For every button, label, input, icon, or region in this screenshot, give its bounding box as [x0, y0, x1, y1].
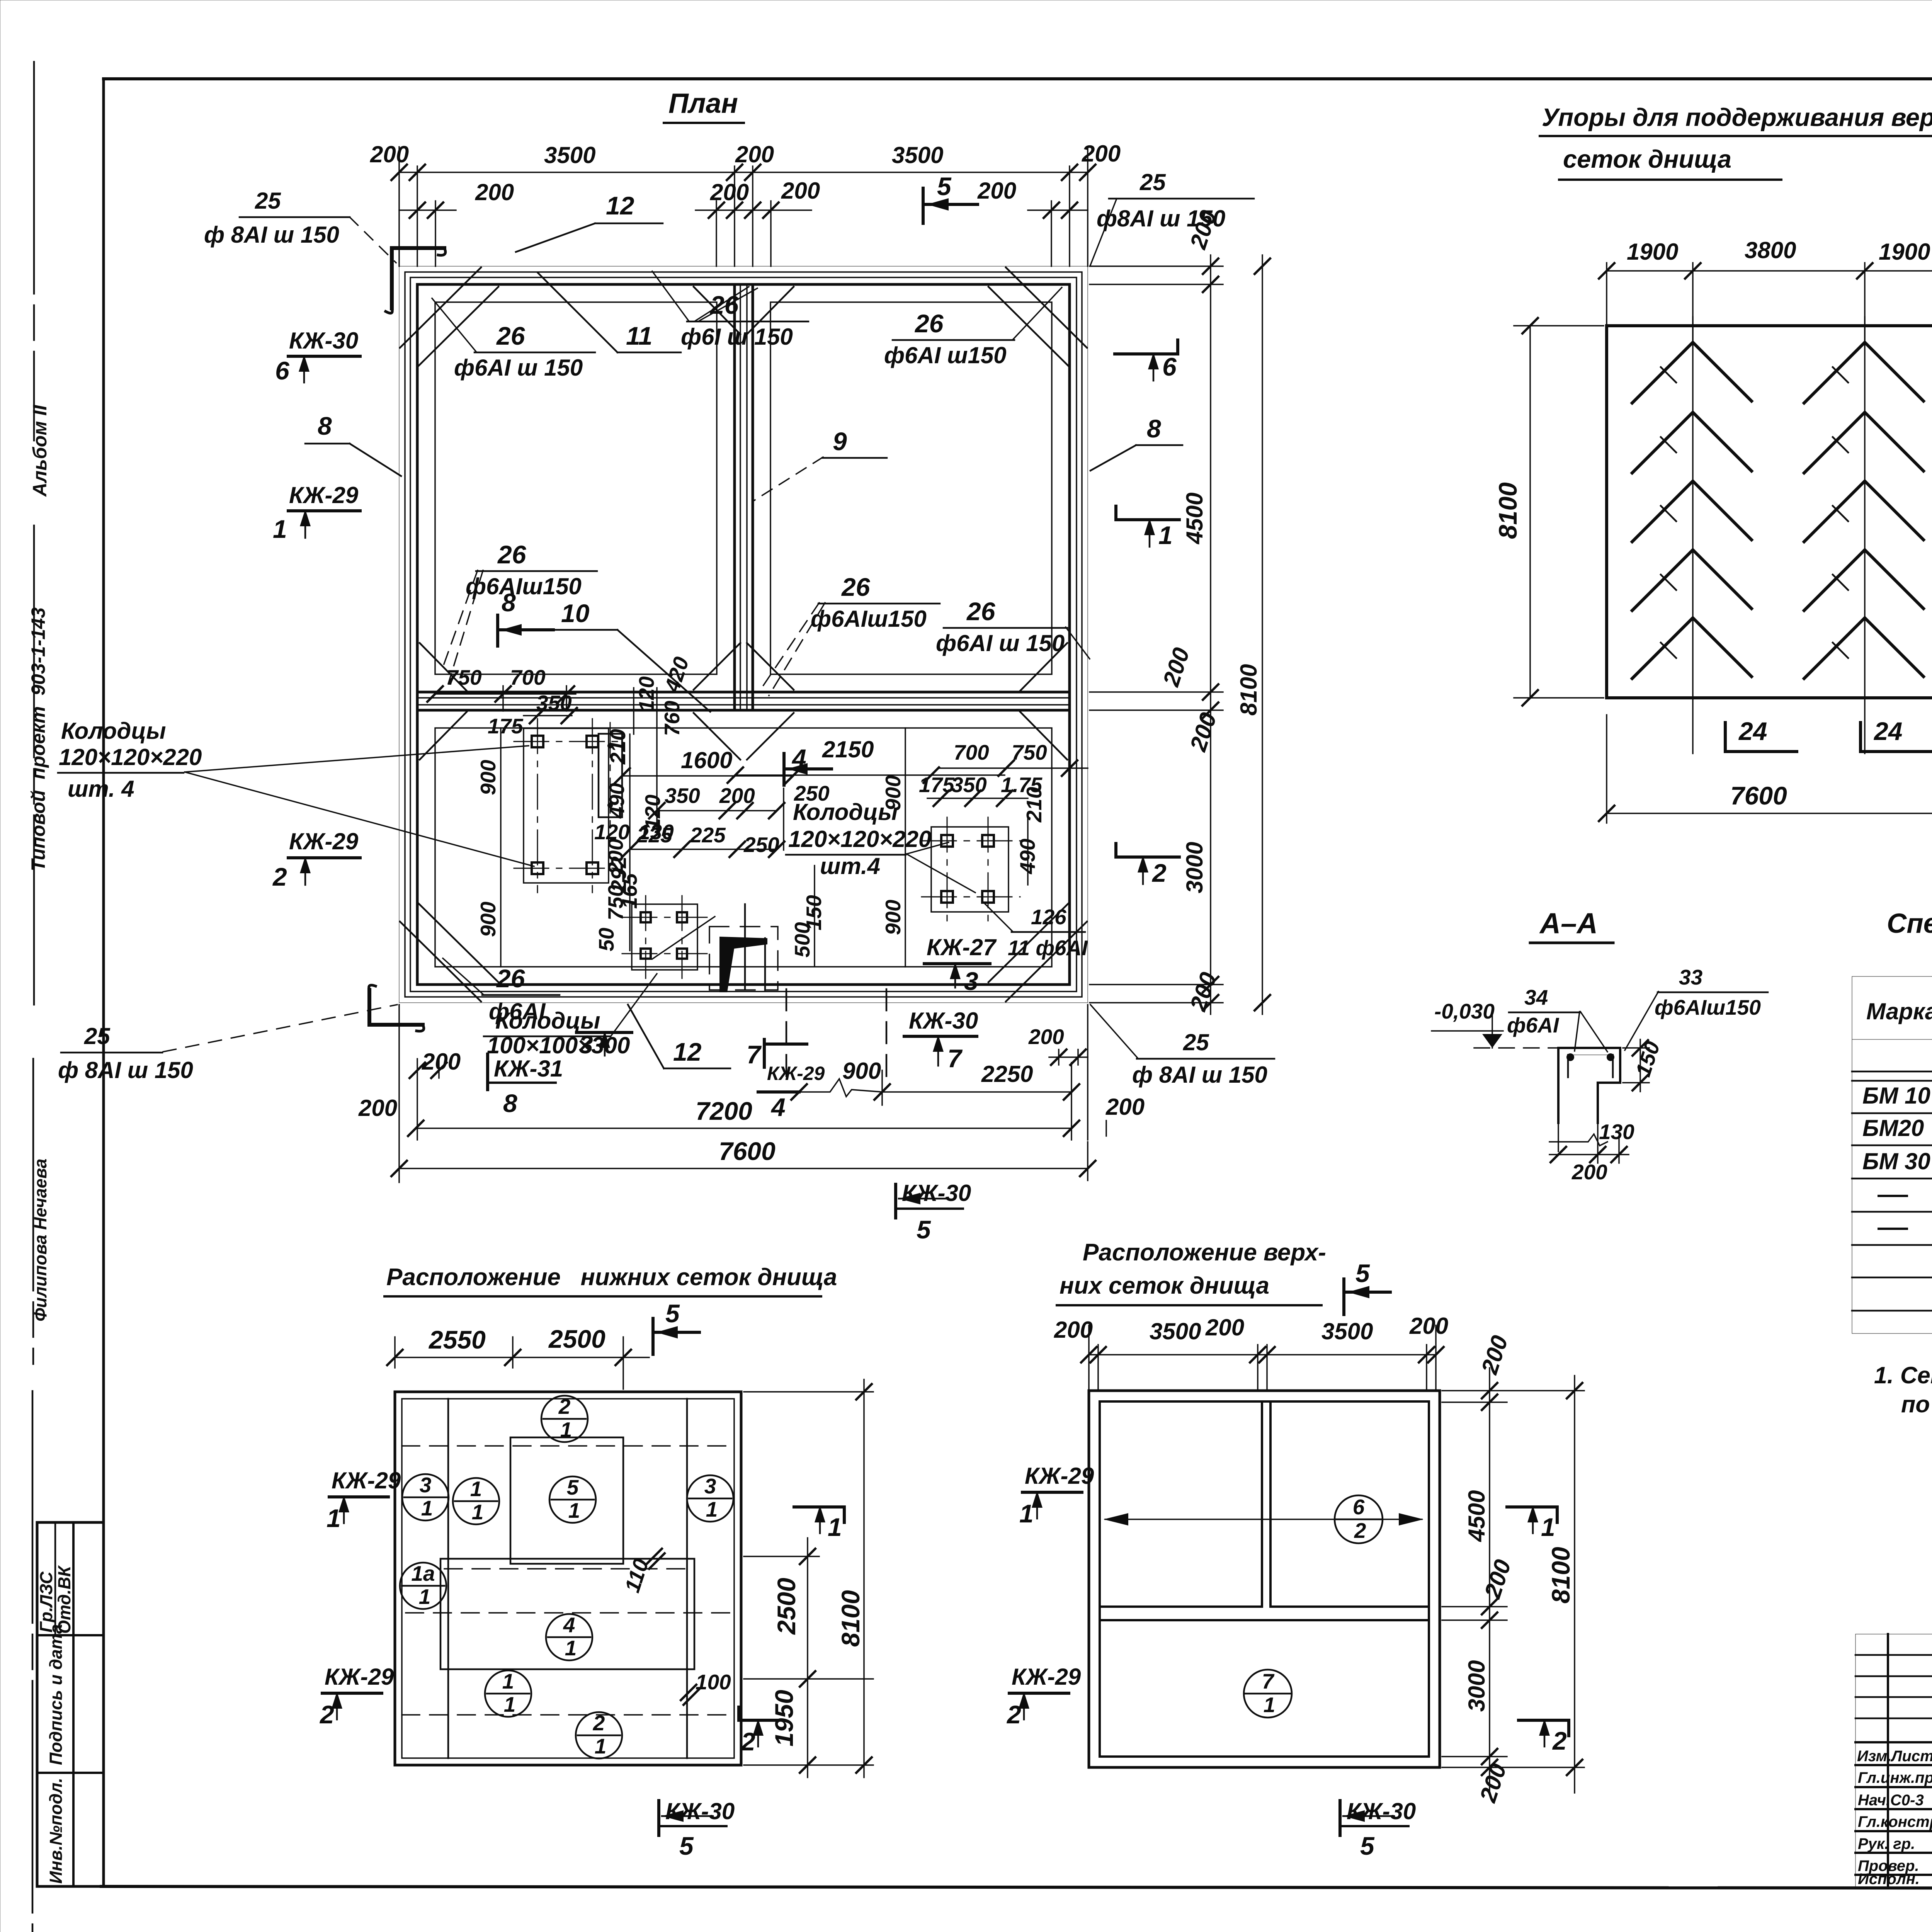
svg-text:200: 200	[358, 1095, 397, 1121]
svg-text:26: 26	[841, 573, 871, 601]
bm right dims	[1442, 1332, 1584, 1806]
svg-text:2: 2	[319, 1700, 334, 1729]
bm square	[1089, 1391, 1440, 1767]
svg-text:5: 5	[665, 1299, 680, 1328]
svg-text:10: 10	[561, 599, 590, 628]
label 26 f6AI	[443, 958, 560, 1024]
svg-text:Инв.№подл.: Инв.№подл.	[46, 1778, 66, 1884]
svg-text:ф6АI ш 150: ф6АI ш 150	[454, 355, 583, 381]
svg-text:225: 225	[690, 823, 726, 847]
svg-text:ф 8АI ш 150: ф 8АI ш 150	[1132, 1062, 1267, 1088]
svg-text:Типовой проект 903-1-143: Типовой проект 903-1-143	[27, 607, 49, 871]
dim 900 bottom	[791, 1058, 890, 1100]
svg-text:2150: 2150	[822, 736, 874, 762]
svg-text:КЖ-27: КЖ-27	[927, 934, 997, 960]
dim 2150 row	[728, 736, 1005, 783]
svg-text:900: 900	[881, 775, 905, 811]
svg-text:4500: 4500	[1464, 1490, 1490, 1542]
top dimension row1	[370, 141, 1121, 266]
A-A profile	[1558, 1048, 1620, 1123]
svg-text:Гр.ЛЗС: Гр.ЛЗС	[36, 1571, 56, 1633]
marker KZh-27 3	[924, 934, 997, 995]
svg-text:120: 120	[634, 676, 658, 712]
svg-text:5: 5	[1360, 1832, 1375, 1860]
svg-text:1: 1	[1158, 521, 1173, 549]
mesh inset rect top-left cell	[435, 302, 717, 674]
plan middle horizontal wall	[417, 692, 1070, 710]
right dim line 8100	[1236, 255, 1270, 1014]
sheet edge line left	[32, 62, 34, 1932]
svg-text:200: 200	[1479, 1556, 1516, 1602]
svg-text:КЖ-30: КЖ-30	[665, 1798, 735, 1824]
svg-text:ф6АIш150: ф6АIш150	[466, 573, 582, 599]
svg-text:210: 210	[606, 729, 630, 765]
svg-text:1: 1	[595, 1734, 607, 1758]
svg-text:8100: 8100	[1236, 664, 1262, 716]
marker KZh-29 1 left	[273, 482, 360, 543]
svg-text:4: 4	[791, 744, 806, 772]
section 7-7 dashed cut lines	[786, 989, 886, 1082]
svg-text:25: 25	[1139, 169, 1166, 195]
svg-text:210: 210	[1022, 787, 1046, 823]
label 26 f6AIsh150 botleft-cell	[441, 540, 597, 684]
bl sheet4 band	[406, 1559, 730, 1669]
svg-text:1: 1	[502, 1669, 514, 1693]
svg-text:7600: 7600	[719, 1137, 776, 1165]
svg-text:КЖ-30: КЖ-30	[289, 328, 358, 354]
svg-text:11 ф6АI: 11 ф6АI	[1008, 936, 1088, 960]
dim 7600	[391, 1137, 1095, 1180]
left margin rotated text Album	[29, 405, 51, 497]
svg-text:26: 26	[496, 964, 526, 993]
svg-text:120×120×220: 120×120×220	[59, 744, 202, 770]
bl marker 5 top	[653, 1299, 699, 1354]
svg-text:3: 3	[964, 967, 978, 995]
svg-text:1: 1	[472, 1500, 484, 1524]
svg-text:Лист: Лист	[1890, 1748, 1932, 1765]
svg-text:2500: 2500	[548, 1325, 605, 1353]
dim 700 750 right	[919, 740, 1088, 806]
mesh inset rect top-right cell	[770, 302, 1052, 674]
svg-text:200: 200	[1158, 645, 1194, 690]
svg-text:200: 200	[977, 178, 1016, 204]
bm circle 6-2	[1335, 1495, 1383, 1543]
svg-text:200: 200	[1185, 709, 1221, 755]
label 9	[754, 427, 887, 500]
bl marker KZh-30 5 bottom	[659, 1798, 735, 1860]
dim 1600	[614, 747, 801, 784]
label Kolodtsy center	[786, 799, 975, 893]
label 25 f8AIsh150 top-left	[204, 188, 396, 263]
svg-text:6: 6	[1353, 1495, 1365, 1519]
label 12 top	[516, 191, 663, 252]
svg-text:Отд.ВК: Отд.ВК	[54, 1565, 74, 1634]
svg-text:БМ 30: БМ 30	[1862, 1148, 1930, 1174]
bl marker KZh-29 1 left	[327, 1468, 401, 1532]
vertical slot detail	[599, 723, 622, 829]
svg-text:6: 6	[1162, 352, 1177, 381]
chevron left dim 8100	[1493, 318, 1604, 706]
left margin rotated text project no	[27, 607, 49, 871]
plan inner wall face	[417, 284, 1070, 985]
A-A title	[1530, 907, 1613, 943]
label 26 f6Ish150 center	[652, 271, 808, 350]
corner braces bottom-right	[988, 902, 1087, 1002]
braces center wall bottom junction	[694, 643, 794, 760]
svg-text:130: 130	[1599, 1120, 1634, 1144]
svg-text:200: 200	[1571, 1160, 1607, 1184]
label 25 f8AIsh150 top-right	[1090, 169, 1254, 265]
svg-text:900: 900	[476, 901, 500, 937]
svg-text:490: 490	[605, 783, 629, 819]
svg-text:2500: 2500	[772, 1578, 801, 1635]
bl title	[384, 1264, 837, 1296]
spec note	[1874, 1362, 1932, 1417]
svg-text:200: 200	[1054, 1317, 1093, 1343]
svg-text:1900: 1900	[1627, 239, 1678, 265]
svg-text:126: 126	[1031, 905, 1066, 929]
top dimension row2	[399, 178, 1088, 266]
svg-text:26: 26	[496, 321, 526, 350]
bl circle 2-1 low	[576, 1711, 622, 1759]
svg-text:900: 900	[881, 900, 905, 935]
svg-text:33: 33	[1679, 965, 1702, 989]
svg-text:1: 1	[327, 1504, 341, 1532]
corner braces top-left	[400, 267, 498, 367]
dim 200 small bottom-right	[1028, 1025, 1088, 1065]
svg-text:900: 900	[476, 760, 500, 795]
svg-text:7200: 7200	[696, 1097, 752, 1125]
bl circle 3-1 right	[687, 1474, 733, 1522]
svg-text:50: 50	[594, 927, 618, 951]
svg-text:Изм.: Изм.	[1857, 1748, 1891, 1765]
svg-text:КЖ-29: КЖ-29	[1025, 1463, 1094, 1489]
label 25 f8AIsh150 bottom-left	[58, 1005, 397, 1083]
left sidebar table	[37, 1522, 104, 1886]
svg-text:Расположение нижних сеток дн: Расположение нижних сеток днища	[386, 1264, 837, 1291]
svg-text:350: 350	[665, 784, 700, 808]
spec header texts	[1866, 990, 1932, 1035]
svg-text:-0,030: -0,030	[1434, 999, 1495, 1023]
svg-text:1: 1	[706, 1497, 718, 1521]
chevron square	[1607, 326, 1932, 698]
svg-text:5: 5	[679, 1832, 694, 1860]
svg-text:Упоры для поддерживания верхни: Упоры для поддерживания верхних	[1542, 103, 1932, 131]
svg-text:3800: 3800	[1745, 237, 1796, 263]
svg-text:200: 200	[422, 1049, 461, 1075]
bottom right 200 dim	[1088, 1005, 1145, 1140]
svg-text:Подпись и дата: Подпись и дата	[46, 1624, 66, 1765]
svg-text:200: 200	[1205, 1315, 1244, 1340]
svg-text:25: 25	[84, 1023, 111, 1049]
label 26 f6AIsh150 topleft-cell	[432, 298, 595, 381]
svg-text:420: 420	[660, 654, 694, 696]
svg-text:КЖ-29: КЖ-29	[325, 1664, 394, 1690]
right dim line inner	[1090, 207, 1223, 1014]
markers 7 KZh-29 4 bottom	[747, 1039, 825, 1121]
svg-text:120×120×220: 120×120×220	[788, 826, 931, 852]
mesh inset rect bottom room	[435, 728, 1052, 967]
bm marker KZh-29 1 left	[1019, 1463, 1094, 1528]
svg-text:Филипова Нечаева: Филипова Нечаева	[31, 1158, 50, 1321]
svg-text:24: 24	[1873, 717, 1902, 745]
bl marker 2 right	[739, 1707, 779, 1756]
bm marker KZh-30 5 bottom	[1340, 1798, 1416, 1860]
svg-text:ф6АI ш 150: ф6АI ш 150	[936, 630, 1065, 656]
svg-text:26: 26	[709, 291, 739, 319]
chevrons left column	[1632, 342, 1752, 679]
spec row BM30	[1862, 1148, 1932, 1174]
svg-text:Рук. гр.: Рук. гр.	[1858, 1835, 1915, 1852]
bm marker KZh-29 2 left	[1006, 1664, 1081, 1729]
svg-text:КЖ-29: КЖ-29	[289, 482, 359, 508]
A-A dims	[1549, 1038, 1665, 1184]
svg-text:2250: 2250	[981, 1061, 1033, 1087]
svg-text:1900: 1900	[1879, 239, 1930, 265]
chevrons right column	[1804, 342, 1923, 679]
A-A elevation mark	[1432, 999, 1557, 1048]
marker 4 mid	[784, 744, 832, 785]
bm top cells	[1100, 1401, 1429, 1757]
svg-text:Расположение верх-: Расположение верх-	[1083, 1239, 1326, 1266]
bottom opening with black wedge	[709, 904, 778, 992]
personnel rows	[1858, 1767, 1932, 1888]
svg-text:2550: 2550	[428, 1325, 486, 1354]
svg-text:Гл.констр: Гл.констр	[1858, 1813, 1932, 1830]
marker KZh-31 8 bottom	[488, 1054, 563, 1117]
svg-text:ф6АIш150: ф6АIш150	[811, 606, 927, 632]
spec row BM10	[1862, 1083, 1932, 1109]
spec title	[1887, 908, 1932, 970]
wells group right 120x120x220	[922, 817, 1020, 922]
svg-text:по месту.: по месту.	[1901, 1391, 1932, 1417]
spec row plita	[1879, 1215, 1932, 1241]
svg-text:3: 3	[420, 1473, 432, 1497]
svg-text:200: 200	[1105, 1094, 1145, 1120]
chevron 24 labels	[1725, 717, 1932, 752]
svg-text:8: 8	[503, 1089, 517, 1117]
svg-text:Исполн.: Исполн.	[1858, 1871, 1920, 1888]
chevron column lines	[1693, 317, 1865, 753]
bl dim 110	[620, 1549, 665, 1595]
marker 2 right	[1116, 844, 1179, 887]
plan wall line thin1	[405, 272, 1082, 997]
svg-text:24: 24	[1738, 717, 1767, 745]
label 10	[552, 599, 710, 712]
svg-text:2: 2	[558, 1395, 571, 1418]
svg-text:2: 2	[1552, 1726, 1567, 1755]
svg-text:них сеток днища: них сеток днища	[1060, 1272, 1269, 1299]
svg-text:1: 1	[560, 1418, 572, 1442]
A-A label 34 f6AI	[1507, 985, 1607, 1052]
bl circle 4-1	[546, 1613, 592, 1660]
bm marker 2 right	[1519, 1719, 1569, 1755]
section marker 5 top	[923, 172, 978, 223]
svg-text:Нач.С0-3: Нач.С0-3	[1858, 1792, 1924, 1809]
bl square	[395, 1392, 741, 1765]
svg-text:1. Сетки в местах отверстий и: 1. Сетки в местах отверстий и закладных …	[1874, 1362, 1932, 1388]
svg-text:26: 26	[497, 540, 527, 569]
svg-text:150: 150	[802, 895, 826, 930]
svg-text:1: 1	[273, 515, 287, 543]
svg-text:700: 700	[510, 665, 546, 689]
svg-text:2: 2	[272, 862, 287, 891]
svg-text:3: 3	[704, 1474, 716, 1498]
svg-text:2: 2	[740, 1727, 755, 1756]
svg-text:Колодцы: Колодцы	[495, 1008, 600, 1034]
bl circle 3-1 left	[402, 1473, 449, 1520]
svg-text:26: 26	[914, 309, 944, 338]
svg-text:КЖ-29: КЖ-29	[767, 1063, 825, 1084]
bl marker KZh-29 2 left	[319, 1664, 394, 1729]
title Plan	[664, 88, 744, 123]
svg-text:3500: 3500	[1150, 1318, 1201, 1344]
bl circle 5-1	[549, 1475, 596, 1523]
svg-text:1а: 1а	[411, 1561, 435, 1585]
plan outer wall thick	[399, 266, 1088, 1003]
label 26 f6AIsh150 botright-cell-left	[760, 573, 940, 696]
svg-text:КЖ-29: КЖ-29	[332, 1468, 401, 1493]
svg-text:1: 1	[470, 1477, 482, 1501]
svg-text:100×100×300: 100×100×300	[487, 1032, 630, 1058]
svg-text:2: 2	[1151, 859, 1167, 887]
svg-text:225: 225	[636, 823, 673, 847]
svg-text:3000: 3000	[1464, 1660, 1490, 1712]
svg-text:А–А: А–А	[1539, 907, 1598, 939]
svg-text:КЖ-29: КЖ-29	[1012, 1664, 1081, 1690]
marker 3 left	[577, 1030, 632, 1059]
svg-text:200: 200	[781, 178, 820, 204]
svg-text:Колодцы: Колодцы	[61, 718, 166, 744]
label 26 f6AIsh150 topright-cell	[884, 287, 1062, 368]
bl dim 100	[681, 1670, 731, 1705]
svg-text:1: 1	[1264, 1693, 1276, 1717]
bent bar symbol bottom-left	[369, 985, 424, 1031]
bl circle 2-1 top	[541, 1395, 588, 1442]
A-A label 33 f6AIsh150	[1625, 965, 1768, 1050]
svg-text:КЖ-30: КЖ-30	[909, 1008, 978, 1034]
label 12 bottom	[628, 1005, 730, 1068]
bl right dims 2500 1950	[744, 1392, 873, 1777]
svg-text:12: 12	[673, 1037, 702, 1066]
svg-text:200: 200	[1082, 141, 1121, 167]
svg-text:ф6АIш150: ф6АIш150	[1655, 995, 1761, 1019]
svg-text:25: 25	[255, 188, 281, 214]
center dims cluster	[607, 781, 830, 909]
svg-text:5: 5	[917, 1215, 931, 1244]
spec row steny	[1879, 1182, 1932, 1207]
braces middle wall right end	[1020, 643, 1067, 760]
svg-text:КЖ-29: КЖ-29	[289, 828, 359, 854]
dims 500 150	[790, 866, 826, 966]
corner braces top-right	[988, 267, 1087, 367]
svg-text:11: 11	[626, 321, 653, 350]
svg-text:3500: 3500	[1321, 1318, 1373, 1344]
svg-text:8100: 8100	[1546, 1547, 1575, 1604]
svg-text:750: 750	[1012, 740, 1047, 764]
svg-text:200: 200	[719, 784, 755, 808]
slot dims	[594, 654, 694, 844]
wells group left 120x120x220	[514, 719, 618, 893]
svg-text:8: 8	[318, 412, 332, 440]
svg-text:25: 25	[1183, 1029, 1209, 1055]
svg-text:1: 1	[568, 1498, 580, 1522]
bl dashed rows	[402, 1446, 734, 1715]
svg-text:шт. 4: шт. 4	[68, 776, 134, 802]
svg-text:4: 4	[563, 1613, 575, 1637]
bm marker 5 top	[1344, 1259, 1390, 1315]
svg-text:700: 700	[954, 740, 989, 764]
bm right dim 8100	[1546, 1376, 1582, 1793]
svg-text:сеток днища: сеток днища	[1563, 145, 1731, 173]
svg-text:900: 900	[842, 1058, 881, 1084]
bl marker 1 right	[794, 1505, 844, 1541]
braces center wall top junction	[694, 287, 794, 334]
svg-text:12: 12	[606, 191, 634, 220]
svg-text:7: 7	[1262, 1669, 1275, 1693]
bl circle 1-1 low	[485, 1669, 531, 1717]
title block outer	[1855, 1634, 1932, 1887]
left margin rotated signature	[31, 1158, 50, 1321]
dim 2250 bottom	[882, 1061, 1079, 1105]
label 26 f6AIsh150 botright-cell-right	[936, 597, 1090, 659]
bm title	[1057, 1239, 1326, 1305]
svg-text:3000: 3000	[1182, 842, 1207, 893]
svg-text:1: 1	[565, 1636, 577, 1660]
marker 8 mid	[498, 588, 553, 646]
svg-text:4500: 4500	[1182, 493, 1207, 544]
svg-text:1600: 1600	[681, 747, 732, 773]
svg-text:8100: 8100	[836, 1590, 865, 1647]
svg-text:200: 200	[1476, 1332, 1513, 1378]
svg-text:7: 7	[947, 1044, 963, 1073]
svg-text:7: 7	[747, 1040, 762, 1069]
svg-text:200: 200	[1185, 969, 1221, 1014]
svg-text:ф 8АI ш 150: ф 8АI ш 150	[58, 1057, 193, 1083]
svg-text:6: 6	[275, 356, 290, 385]
svg-text:КЖ-30: КЖ-30	[1347, 1798, 1416, 1824]
svg-text:БМ20: БМ20	[1862, 1115, 1924, 1141]
label 8 right	[1090, 414, 1182, 471]
svg-text:2: 2	[1354, 1519, 1366, 1543]
svg-text:200: 200	[475, 179, 514, 205]
svg-text:9: 9	[833, 427, 847, 456]
svg-text:3500: 3500	[892, 142, 943, 168]
bent bar symbol 12 top-left	[386, 248, 446, 313]
svg-text:200: 200	[710, 179, 749, 205]
right wells vert dims	[881, 728, 1046, 967]
bm mesh line arrows	[1104, 1513, 1423, 1526]
plan center vertical wall	[735, 284, 753, 710]
svg-text:План: План	[668, 88, 738, 119]
title block left grid	[1855, 1634, 1932, 1887]
svg-text:120: 120	[594, 820, 630, 844]
marker 6 right	[1115, 340, 1178, 381]
label Kolodtsy left	[58, 718, 534, 866]
plan wall line thin2	[410, 277, 1077, 992]
bl circle 1a-1	[400, 1561, 446, 1609]
svg-text:8100: 8100	[1493, 482, 1522, 539]
svg-text:100: 100	[696, 1670, 731, 1694]
svg-text:КЖ-31: КЖ-31	[494, 1056, 563, 1082]
title Upory line2	[1559, 145, 1781, 180]
svg-text:1: 1	[828, 1513, 842, 1541]
svg-text:350: 350	[951, 773, 987, 797]
dim 200 bottom-left	[358, 1005, 461, 1182]
marker KZh-29 2 left	[272, 828, 360, 891]
svg-text:Альбом ІІ: Альбом ІІ	[29, 405, 51, 497]
svg-text:150: 150	[1631, 1038, 1664, 1080]
